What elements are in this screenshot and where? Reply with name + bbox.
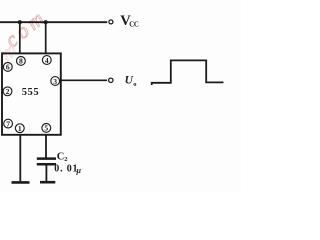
svg-text:1: 1 (18, 124, 22, 133)
junction dot B (44, 20, 48, 24)
wire rail to pin 4 (45, 22, 47, 53)
pin 7 (4, 119, 13, 128)
svg-text:8: 8 (19, 57, 23, 66)
svg-text:C: C (57, 152, 65, 163)
label Uo (125, 75, 137, 89)
svg-text:3: 3 (53, 77, 57, 86)
wire rail to pin 8 (19, 22, 21, 53)
wire pin 5 to C2 (45, 135, 47, 158)
watermark com (top-left) (0, 4, 52, 52)
svg-text:5: 5 (44, 124, 48, 133)
svg-text:2: 2 (6, 87, 10, 96)
svg-text:7: 7 (6, 119, 10, 128)
capacitor C2 (37, 159, 56, 165)
pin 1 (15, 124, 24, 133)
pin 8 (17, 57, 26, 66)
label C2 (57, 152, 68, 164)
svg-text:CC: CC (129, 22, 139, 29)
pin 3 (51, 77, 60, 86)
terminal Uo (109, 78, 113, 82)
pin 5 (42, 124, 51, 133)
wire pin 1 to ground (19, 135, 21, 182)
pin 4 (42, 56, 51, 65)
svg-text:6: 6 (6, 63, 10, 72)
label 0.01u (54, 164, 81, 176)
label VCC (120, 13, 139, 29)
waveform square pulse (152, 60, 224, 85)
svg-text:o: o (133, 81, 136, 88)
svg-text:555: 555 (22, 87, 40, 98)
ground (C2) (40, 181, 55, 184)
ground (pin 1) (12, 181, 30, 184)
terminal VCC (109, 20, 113, 24)
pin 2 (3, 87, 12, 96)
wire VCC rail (0, 21, 107, 23)
watermark fragment (left edge) (0, 36, 24, 74)
IC 555 U1 box (2, 53, 61, 134)
junction dot A (18, 20, 22, 24)
pin 6 (3, 63, 12, 72)
wire C2 to ground (45, 165, 47, 181)
svg-text:4: 4 (45, 56, 49, 65)
wire pin 3 output (61, 79, 107, 81)
svg-text:μ: μ (76, 166, 82, 175)
svg-text:0. 01: 0. 01 (54, 164, 78, 175)
svg-text:2: 2 (64, 156, 67, 163)
